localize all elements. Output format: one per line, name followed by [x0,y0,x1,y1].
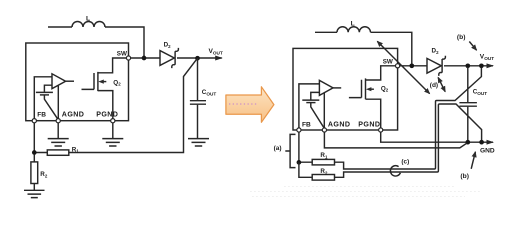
wire VOUT to R1 [69,59,197,152]
svg-text:(d): (d) [430,82,438,89]
wire FB to op-amp + input [34,77,52,119]
wire diode to VOUT [444,65,493,67]
ground PGND [102,139,123,146]
diode D2 [160,42,178,69]
node SW junction [142,56,147,61]
wire op-amp - input to reference [44,85,52,92]
wire PGND to GND rail [381,132,493,142]
svg-text:Q2: Q2 [113,79,121,86]
label (c) with loop [390,158,409,176]
wire divider to R2 [299,162,312,177]
pin PGND [379,128,383,132]
inductor L [72,15,105,27]
wire reference to AGND pin [311,103,324,128]
svg-text:GND: GND [480,147,495,154]
wire SW pin to diode [131,57,160,59]
svg-text:D2: D2 [164,42,172,49]
svg-text:COUT: COUT [473,89,488,97]
wire diode to VOUT [177,57,222,59]
arrow (b) top [469,42,476,51]
node VOUT-sense junction [479,63,484,68]
wire inductor to SW node [105,27,144,58]
svg-text:R2: R2 [40,171,48,178]
wire AGND to GND rail [324,132,466,148]
wire GND sense (R2 to GND node) [335,104,482,177]
node VOUT-COUT junction [465,63,470,68]
svg-text:COUT: COUT [202,89,217,97]
pin SW [126,56,130,60]
wire VOUT sense (R1 to VOUT node) [335,68,482,169]
wire AGND to ground [57,123,59,139]
svg-text:VOUT: VOUT [480,53,494,61]
inductor L [337,21,370,33]
pin FB [297,128,301,132]
svg-text:PGND: PGND [358,121,380,129]
transistor Q2 [349,66,396,128]
svg-text:(a): (a) [274,145,282,152]
IC box U2 [293,48,398,130]
resistor R1 [312,152,334,165]
resistor R1 [47,146,79,155]
transistor Q2 [82,58,127,119]
svg-text:VOUT: VOUT [209,48,223,56]
wire FB to op-amp + input [299,84,320,128]
node FB divider [32,150,37,155]
ground COUT [188,139,209,146]
arrow (b) bottom [471,152,475,169]
svg-text:R1: R1 [72,146,80,153]
node GND-COUT junction [465,140,470,145]
svg-text:Q2: Q2 [381,85,389,92]
svg-text:(b): (b) [457,34,466,41]
wire input to inductor [315,31,337,33]
op-amp U1 [52,74,74,89]
node SW junction [409,63,414,68]
arrow separator [226,87,274,123]
svg-text:(b): (b) [460,173,469,180]
node VOUT junction [195,56,200,61]
svg-text:SW: SW [117,51,127,58]
svg-text:R1: R1 [320,152,328,159]
IC box U1 [26,43,129,121]
wire FB to divider [299,132,312,162]
resistor R2 [31,154,48,183]
svg-text:FB: FB [302,122,311,129]
wire op-amp ground to AGND pin [323,93,325,128]
svg-text:AGND: AGND [328,121,351,129]
wire PGND to ground [112,123,114,139]
diode D2 [427,48,445,76]
svg-text:L: L [86,15,90,22]
pin SW [396,64,400,68]
svg-text:L: L [351,21,355,28]
wire SW pin to diode [400,65,427,67]
wire R2 to ground [33,184,35,191]
svg-text:SW: SW [383,59,393,66]
label (a) with bracket [274,134,296,167]
node FB divider [297,160,302,165]
capacitor COUT [459,67,487,140]
svg-text:PGND: PGND [96,110,118,118]
wire reference to AGND pin [44,95,57,119]
svg-text:D2: D2 [432,48,440,55]
op-amp U2 [319,80,341,95]
reference battery [302,100,319,103]
ground AGND [48,139,69,146]
svg-text:(c): (c) [401,158,409,165]
wire FB to divider [34,123,47,153]
wire input to inductor [48,26,72,28]
resistor R2 [312,168,334,180]
arrow (d) short [438,77,445,91]
wire op-amp - input to reference [311,92,320,99]
svg-text:AGND: AGND [62,110,85,118]
reference battery [36,92,53,95]
pin AGND [56,119,60,123]
svg-text:FB: FB [37,111,46,118]
svg-text:R2: R2 [320,168,328,175]
pin FB [32,119,36,123]
pin PGND [111,119,115,123]
arrow (d) long [377,41,429,93]
pin AGND [322,128,326,132]
wire op-amp ground to AGND pin [57,86,59,119]
node GND-sense junction [479,140,484,145]
capacitor COUT [190,58,216,138]
ground R2 [24,190,45,197]
faint artifacts bottom right [250,187,480,197]
wire inductor to SW node [371,32,412,66]
